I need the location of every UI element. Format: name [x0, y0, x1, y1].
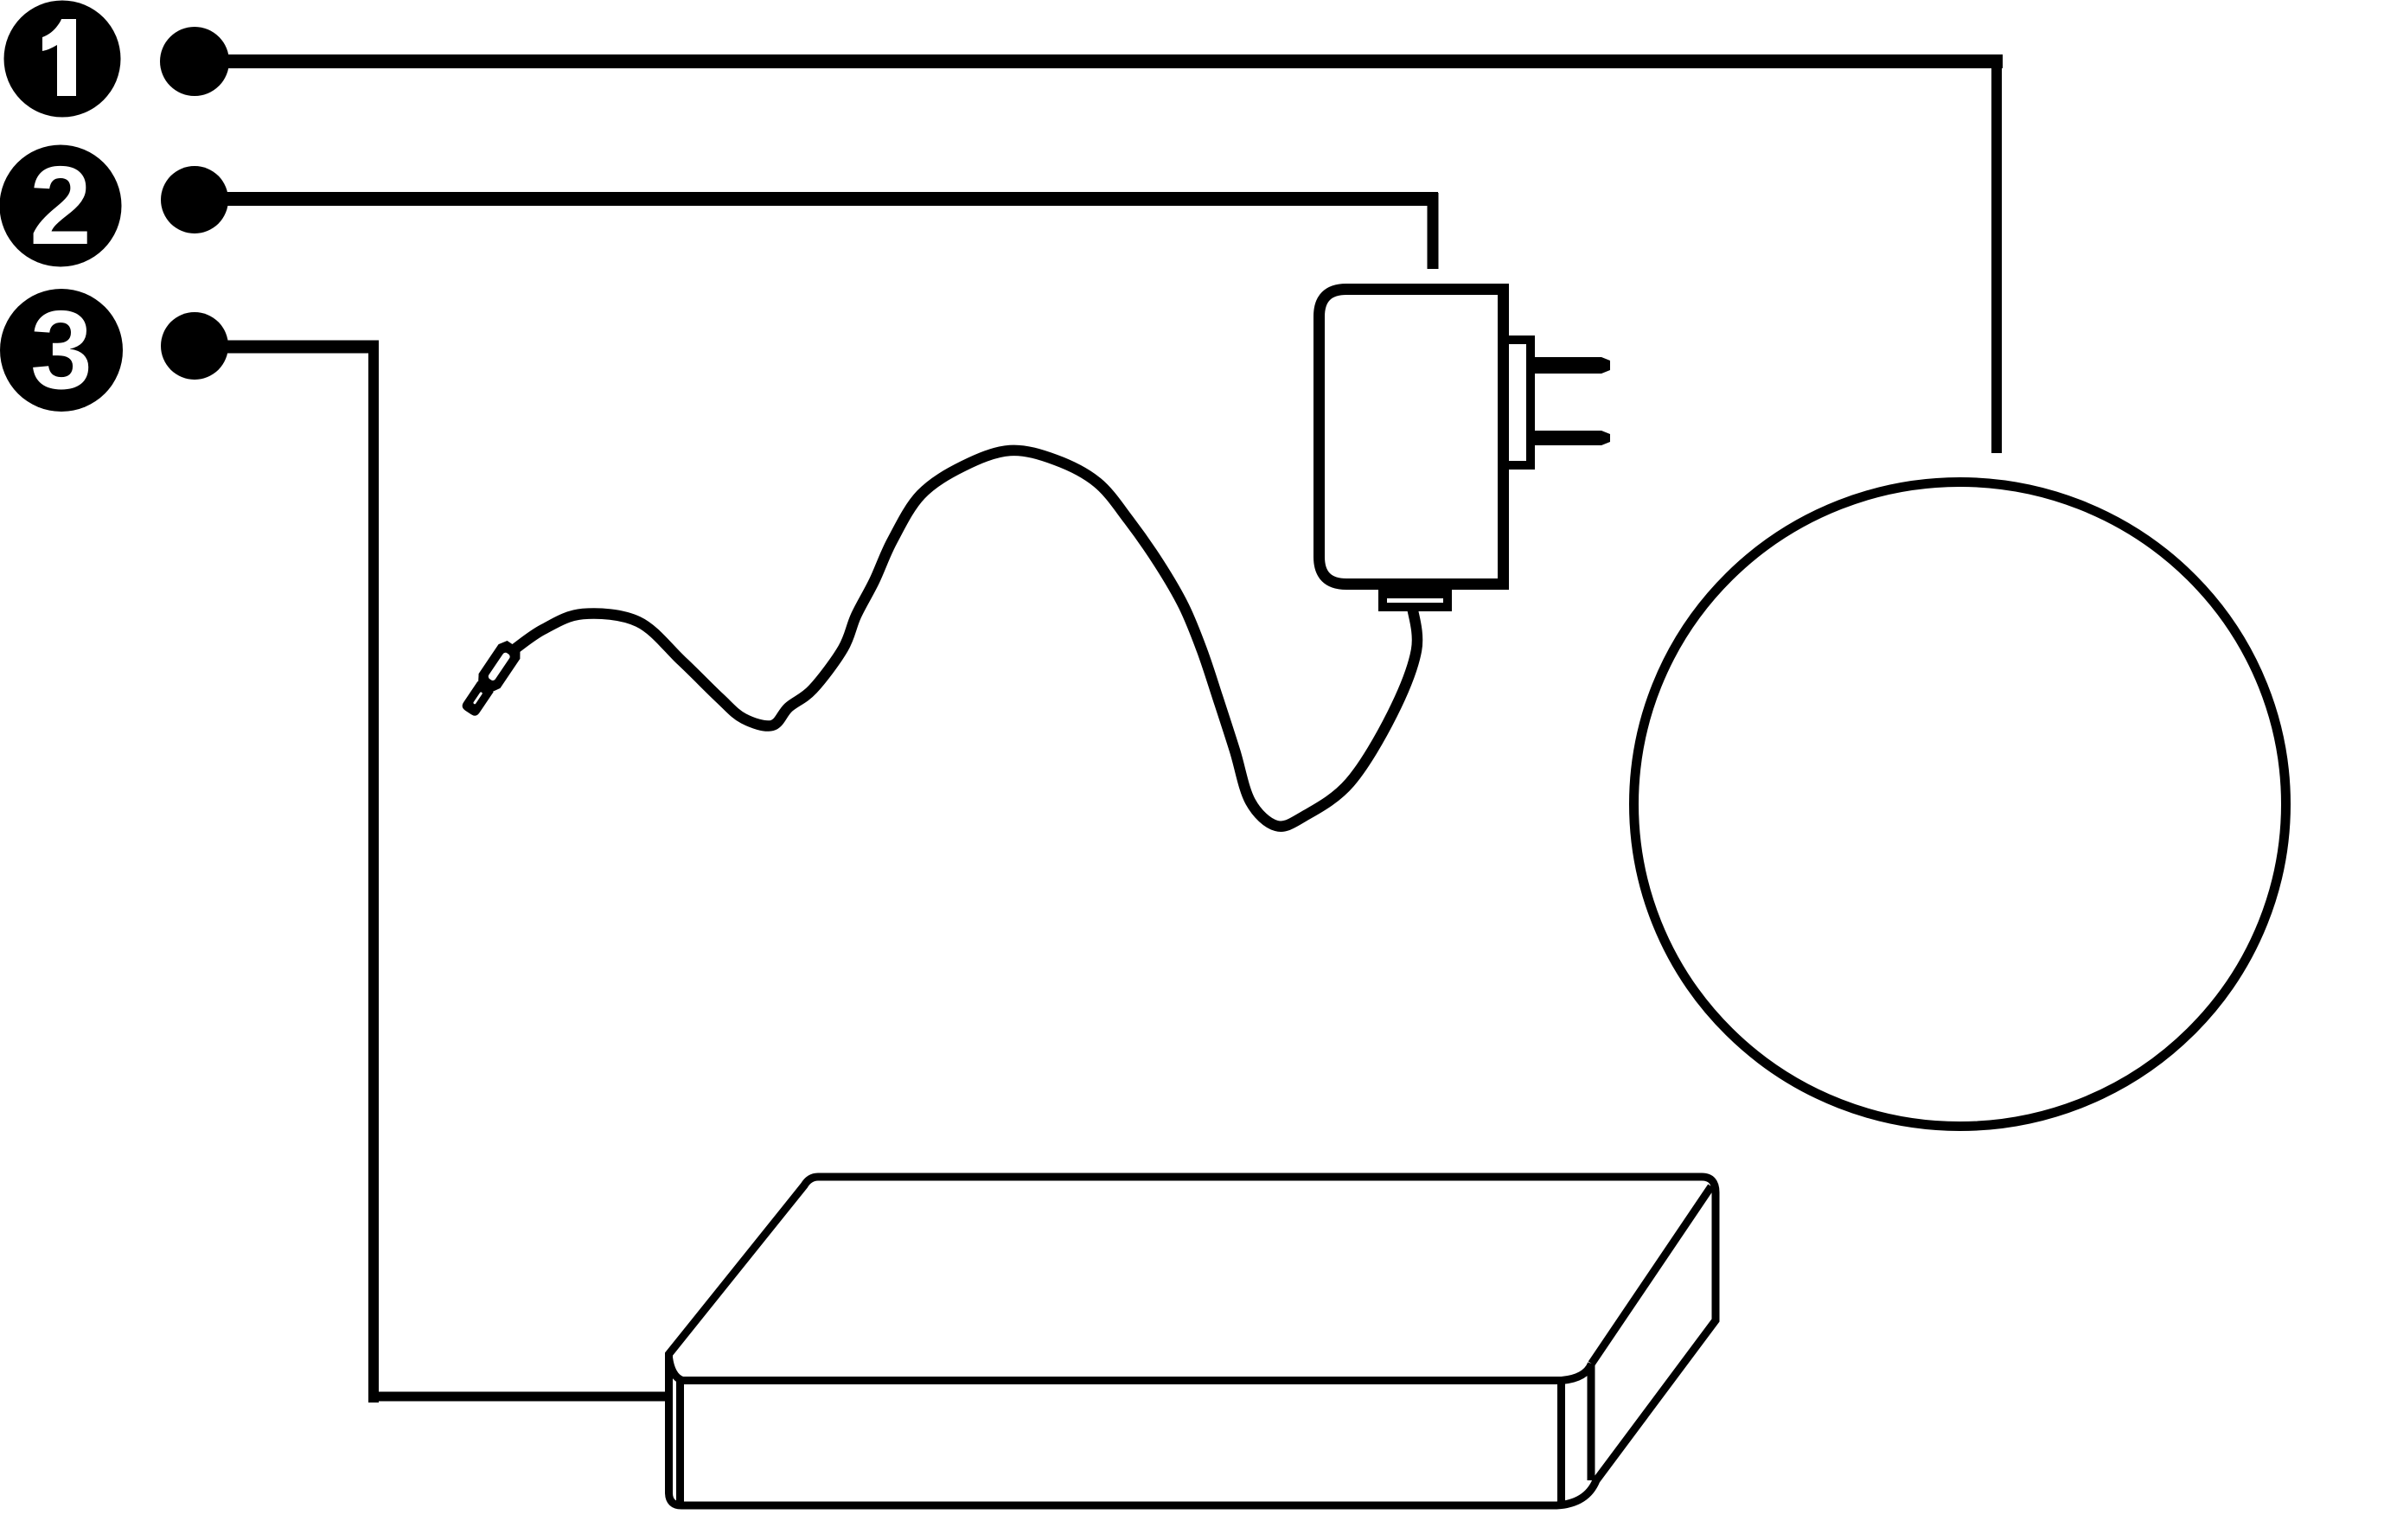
AC adapter: wall-plug prong (top) [1532, 357, 1610, 374]
svg-text:2: 2 [29, 144, 92, 268]
leader line 1: vertical segment [1991, 55, 2002, 453]
leader line 2: vertical segment [1428, 193, 1439, 269]
DC connector plug [457, 638, 524, 720]
levitation base: left front corner inner edge [676, 1380, 684, 1505]
power cable [499, 450, 1417, 827]
svg-text:3: 3 [30, 288, 93, 412]
leader dot 1 [160, 27, 229, 96]
leader dot 2 [161, 166, 228, 233]
leader line 3: bottom horizontal segment [368, 1392, 666, 1402]
callout badge 3 [0, 288, 123, 412]
leader line 2: horizontal segment [195, 192, 1438, 206]
levitation base: front top edge [669, 1358, 1592, 1381]
levitation base: outer silhouette [669, 1177, 1716, 1505]
callout badge 2 [0, 144, 122, 268]
leader line 3: vertical segment [368, 341, 379, 1403]
leader line 3: top horizontal segment [195, 341, 379, 354]
AC adapter: plug face plate [1507, 340, 1531, 465]
levitation base: right front corner outer edge [1588, 1364, 1595, 1480]
AC adapter: wall-plug prong (bottom) [1532, 431, 1610, 445]
AC adapter: cable exit nub [1383, 594, 1448, 607]
leader dot 3 [161, 312, 228, 380]
callout badge 1 [4, 1, 121, 118]
levitation base: right front corner inner edge [1557, 1380, 1565, 1505]
levitation base: top-right depth edge [1592, 1186, 1712, 1364]
sphere (floating lamp ball) [1634, 482, 2286, 1127]
leader line 1: horizontal segment [195, 54, 2003, 68]
AC adapter: body [1320, 290, 1504, 585]
